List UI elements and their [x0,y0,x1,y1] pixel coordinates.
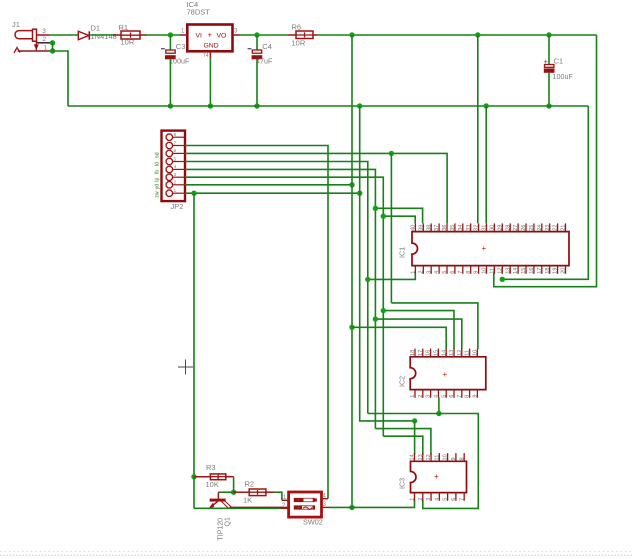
capacitor C3 lead [169,35,171,50]
wire VCC drop x352 [351,35,353,507]
JP2 pin 6 stub [173,152,185,154]
wire VCC row to IC3 pin1 [329,500,415,508]
IC1 bottom pin 6 stub [454,266,456,274]
svg-text:9: 9 [473,395,479,398]
J1 sleeve lead with arrow [35,41,37,50]
junction P3 pin40 [381,214,386,219]
svg-text:yd: yd [155,184,161,190]
IC3 bottom pin 1 stub [414,493,416,501]
svg-text:7: 7 [457,395,463,398]
wire P4 branch to IC2 pin12 [375,319,461,349]
wire VCC top rail [317,34,597,36]
svg-text:zw: zw [155,191,161,198]
capacitor C4 minus sign [248,48,252,50]
IC1 bottom pin 4 stub [438,266,440,274]
svg-text:6: 6 [450,271,456,274]
JP2 pin 7 circle [166,142,172,148]
junction GND IC3 pin14 branch [412,418,417,423]
svg-text:2: 2 [174,180,177,186]
svg-text:18: 18 [410,350,416,356]
svg-text:+: + [297,497,301,504]
SW02 pin2 stub [281,507,289,509]
svg-text:15: 15 [434,350,440,356]
capacitor C1 top plate [545,65,554,68]
wire IC4 GND to rail [209,57,211,106]
svg-text:5: 5 [441,395,447,398]
wire C3 to rail [169,59,171,106]
wire IC3 pin14 drop [414,421,416,455]
resistor R1 lead right [140,34,147,36]
IC1 top pin 30 stub [493,223,495,231]
IC3 top pin 12 stub [430,453,432,461]
wire D1 to R1 [90,34,115,36]
IC4 pin VO stub [233,34,241,36]
IC1 bottom pin 18 stub [549,266,551,274]
wire JP2 pin3 vertical [185,177,383,436]
junction VCC x549 C1 [546,32,551,37]
IC1 top pin 40 stub [414,223,416,231]
svg-text:4: 4 [174,164,177,170]
svg-text:7: 7 [459,498,465,501]
JP2 pin 6 circle [166,150,172,156]
resistor R6 lead left [288,34,296,36]
svg-text:37: 37 [434,225,440,231]
wire JP2 pin2 to VCC drop [185,184,352,186]
IC1 bottom pin 13 stub [509,266,511,274]
JP2 pin 5 circle [166,158,172,164]
IC IC1 body outline [412,232,569,266]
voltage regulator IC4 box [187,25,232,52]
IC1 top pin 33 stub [470,223,472,231]
wire J1 pin1 to GND rail [53,51,69,106]
junction C4 rail [254,103,259,108]
svg-text:13: 13 [418,454,424,460]
IC3 bottom pin 6 stub [455,493,457,501]
IC1 top pin 35 stub [454,223,456,231]
junction GND x486 [484,103,489,108]
svg-text:4: 4 [434,271,440,274]
svg-text:lp: lp [155,178,161,182]
IC1 top pin 29 stub [501,223,503,231]
IC3 top pin 9 stub [455,453,457,461]
transistor Q1 collector darlington lead [222,502,229,509]
wire P5 branch to IC1 pin1 [368,273,416,280]
svg-text:IC2: IC2 [398,376,407,387]
svg-text:1K: 1K [243,496,252,505]
svg-text:R2: R2 [245,480,255,489]
svg-text:23: 23 [545,225,551,231]
capacitor C4 top plate [252,50,261,53]
Q1 collector red overlay to SW02 [230,506,289,508]
svg-text:ld: ld [155,162,161,166]
svg-text:IC3: IC3 [398,478,407,489]
svg-text:6: 6 [451,498,457,501]
junction IC1 pin12 GND [500,277,505,282]
svg-text:2: 2 [418,271,424,274]
svg-text:40: 40 [411,225,417,231]
wire JP2 pin1 to GND drop [185,192,360,194]
svg-text:+: + [482,244,487,253]
svg-text:10: 10 [473,350,479,356]
svg-text:12: 12 [497,268,503,274]
wire JP2 pin1 drop to R3 [193,193,195,477]
svg-text:VO: VO [217,33,227,40]
wire J1 pin2 to pin1 [52,43,54,51]
svg-text:5: 5 [443,498,449,501]
IC1 top pin 31 stub [486,223,488,231]
wire GND to IC1 pin31 [485,106,487,223]
svg-text:74: 74 [203,53,209,59]
svg-text:13: 13 [449,350,455,356]
IC1 top pin 36 stub [446,223,448,231]
IC1 top pin 26 stub [525,223,527,231]
svg-text:8: 8 [465,395,471,398]
svg-text:R1: R1 [119,23,129,32]
svg-text:1: 1 [44,44,48,51]
wire P4 branch to IC3 pin12 [375,429,431,455]
svg-text:+: + [434,472,439,481]
svg-text:39: 39 [418,225,424,231]
svg-text:+: + [297,505,301,512]
wire C4 to rail [256,59,258,106]
JP2 pin 3 circle [166,174,172,180]
wire P6 branch to IC2 pin10 [391,303,478,349]
IC1 top pin 21 stub [565,223,567,231]
svg-text:14: 14 [441,350,447,356]
wire VCC to IC1 pin32 [477,35,479,223]
wire junction to transistor base [218,491,233,493]
wire JP2 pin7 to SW02 pin4 net [185,146,328,499]
svg-text:C3: C3 [176,42,186,51]
wire IC2 pin4 to P5 wire [438,397,440,413]
svg-text:9: 9 [474,271,480,274]
svg-text:3: 3 [426,271,432,274]
junction GND x360 [357,103,362,108]
connector JP2 box [162,131,186,202]
capacitor C4 bottom plate [252,55,263,59]
IC1 bottom pin 2 stub [422,266,424,274]
IC3 bottom pin 3 stub [430,493,432,501]
J1 pin 3 stub [37,34,50,36]
IC2 top pin 10 stub [476,349,478,357]
JP2 pin 4 circle [166,166,172,172]
IC3 bottom pin 2 stub [422,493,424,501]
wire JP2 pin6 net to IC1 pin36 [185,153,447,223]
junction C3 top [168,32,173,37]
junction VCC x478 [475,32,480,37]
JP2 pin 7 stub [173,145,185,147]
svg-text:1N4148: 1N4148 [91,32,117,41]
wire R3 to R2 junction [233,477,235,493]
resistor R2 body [249,489,266,496]
IC2 top pin 15 stub [437,349,439,357]
svg-text:10K: 10K [206,480,219,489]
svg-text:78DST: 78DST [187,8,211,17]
junction P1 x194 [191,191,196,196]
junction VCC SW02 pin3 branch [349,505,354,510]
wire P6 drop x391 [390,153,392,303]
connector J1 barrel [15,31,33,39]
svg-text:19: 19 [553,268,559,274]
svg-text:11: 11 [465,350,471,356]
svg-text:16: 16 [426,350,432,356]
JP2 pin 4 stub [173,168,185,170]
IC IC3 body outline [411,461,467,492]
svg-text:12: 12 [426,454,432,460]
IC4 pin VI stub [180,34,187,36]
svg-text:25: 25 [529,225,535,231]
svg-text:1: 1 [174,188,177,194]
svg-text:11: 11 [434,455,440,461]
svg-text:17: 17 [418,350,424,356]
svg-text:4: 4 [434,498,440,501]
IC1 bottom pin 9 stub [478,266,480,274]
svg-text:2: 2 [418,498,424,501]
IC3 bottom pin 5 stub [447,493,449,501]
switch SW02 box [289,492,322,517]
svg-text:14: 14 [410,454,416,460]
JP2 pin 5 stub [173,161,185,163]
svg-text:10: 10 [482,268,488,274]
IC1 bottom pin 12 stub [501,266,503,274]
IC3 top pin 13 stub [422,453,424,461]
svg-text:38: 38 [426,225,432,231]
svg-text:47uF: 47uF [256,57,273,66]
IC2 top pin 13 stub [453,349,455,357]
svg-text:35: 35 [450,225,456,231]
svg-text:30: 30 [490,225,496,231]
IC IC2 body outline [410,357,486,390]
IC2 bottom pin 3 stub [430,390,432,398]
svg-text:32: 32 [474,225,480,231]
svg-text:21: 21 [561,225,567,231]
IC3 top pin 11 stub [438,453,440,461]
svg-text:10R: 10R [292,39,306,48]
wire R1 to IC4 VI [146,34,181,36]
junction J1 pin1 [50,48,55,53]
J1 pin 1 stub [18,50,53,52]
IC2 bottom pin 9 stub [476,390,478,398]
resistor R3 lead left [194,476,210,478]
svg-text:1: 1 [410,395,416,398]
wire P3 branch to IC2 pin13 [383,311,454,349]
svg-text:100uF: 100uF [169,57,190,66]
wire P4 branch to IC1 pin39 [375,208,422,223]
JP2 pin 8 stub [173,136,185,138]
svg-text:2: 2 [43,36,47,43]
SW02 pin4 stub [322,498,329,500]
svg-text:11: 11 [490,268,496,274]
JP2 pin 2 stub [173,184,185,186]
wire GND drop x360 [360,106,415,421]
IC1 top pin 37 stub [438,223,440,231]
IC1 top pin 22 stub [557,223,559,231]
svg-text:31: 31 [482,225,488,231]
svg-text:27: 27 [513,225,519,231]
IC1 top pin 34 stub [462,223,464,231]
wire JP2 pin4 vertical [185,169,375,428]
svg-text:10: 10 [443,454,449,460]
wire VCC rail right drop [494,35,597,287]
svg-text:7: 7 [174,140,177,146]
svg-text:6: 6 [174,148,177,154]
svg-text:15: 15 [521,268,527,274]
IC2 bottom pin 6 stub [453,390,455,398]
svg-text:VI: VI [196,33,203,40]
IC3 top pin 14 stub [414,453,416,461]
svg-text:8: 8 [174,132,177,138]
svg-text:TIP120: TIP120 [218,518,225,541]
svg-text:C1: C1 [554,57,564,66]
IC2 bottom pin 8 stub [469,390,471,398]
junction C3 rail [168,103,173,108]
capacitor C4 lead [256,35,258,50]
IC2 bottom pin 7 stub [461,390,463,398]
JP2 pin 1 circle [166,190,172,196]
IC1 bottom pin 8 stub [470,266,472,274]
SW02 switch bar 1 [294,498,315,502]
svg-text:IC1: IC1 [398,247,407,258]
capacitor C3 bottom plate [165,55,176,59]
junction C4 top [254,32,259,37]
IC1 bottom pin 11 stub [493,266,495,274]
IC1 bottom pin 17 stub [541,266,543,274]
origin crosshair marker [178,366,193,368]
IC1 top pin 38 stub [430,223,432,231]
IC1 bottom pin 14 stub [517,266,519,274]
svg-text:26: 26 [521,225,527,231]
IC1 top pin 28 stub [509,223,511,231]
junction VCC IC2 pin14 branch [349,325,354,330]
wire JP2 pin5 vertical [185,162,368,414]
svg-text:16: 16 [529,268,535,274]
svg-text:+: + [443,370,448,379]
svg-text:sd: sd [155,152,161,158]
svg-text:7: 7 [458,271,464,274]
svg-text:14: 14 [513,268,519,274]
junction P6 x391 [389,151,394,156]
wire x194 down to emitter row [193,477,195,509]
svg-text:9: 9 [451,457,457,460]
IC1 top pin 32 stub [478,223,480,231]
svg-text:5: 5 [174,156,177,162]
connector J1 bar [33,29,37,41]
capacitor C3 top plate [166,50,175,53]
svg-text:10R: 10R [121,38,135,47]
JP2 pin 1 stub [173,192,185,194]
svg-text:SW02: SW02 [303,518,323,527]
IC1 top pin 23 stub [549,223,551,231]
resistor R3 body [210,474,225,480]
IC2 top pin 17 stub [422,349,424,357]
svg-text:13: 13 [505,268,511,274]
capacitor C3 minus sign [161,48,165,50]
svg-text:GND: GND [204,43,219,50]
wire P3 branch to IC3 pin13 [383,436,423,455]
transistor Q1 base bar [210,499,226,502]
svg-text:100uF: 100uF [553,72,574,81]
IC2 top pin 14 stub [445,349,447,357]
IC1 bottom pin 1 stub [414,266,416,274]
sheet boundary dotted line lower [0,554,633,556]
svg-text:3: 3 [42,28,46,35]
svg-text:8: 8 [466,271,472,274]
wire R2 to SW02 pin1 [274,492,282,500]
resistor R1 lead left [113,34,121,36]
svg-text:JP2: JP2 [171,202,184,211]
IC1 top pin 25 stub [533,223,535,231]
svg-text:5: 5 [442,271,448,274]
SW02 pin3 stub [322,506,330,508]
svg-text:24: 24 [537,225,543,231]
IC1 bottom pin 7 stub [462,266,464,274]
svg-text:20: 20 [561,268,567,274]
wire J1 pin3 to D1 [49,34,78,36]
wire C1 to GND rail [548,73,550,106]
IC2 bottom pin 5 stub [445,390,447,398]
svg-text:Q1: Q1 [225,517,232,526]
svg-text:J1: J1 [12,20,20,29]
capacitor C1 bottom plate [544,68,555,72]
svg-text:3: 3 [426,395,432,398]
junction R2 left [231,490,236,495]
IC1 bottom pin 3 stub [430,266,432,274]
resistor R2 lead right [266,491,274,493]
junction VCC x352 [349,32,354,37]
svg-text:33: 33 [466,225,472,231]
junction P4 pin39 [373,206,378,211]
junction P3 IC2 pin13 [381,308,386,313]
svg-text:2: 2 [418,395,424,398]
wire Q1 emitter row to SW02 pin2 [194,507,282,509]
junction C1 GND rail [546,103,551,108]
IC3 top pin 10 stub [447,453,449,461]
JP2 pin 3 stub [173,176,185,178]
IC3 bottom pin 4 stub [438,493,440,501]
resistor R3 lead right [226,476,234,478]
J1 pin 2 stub [37,42,53,44]
SW02 switch bar 2 [294,505,315,509]
IC1 bottom pin 5 stub [446,266,448,274]
svg-text:C4: C4 [262,42,272,51]
wire P3 branch to IC1 pin40 [383,216,415,223]
svg-text:17: 17 [537,268,543,274]
IC4 GND pin stub [209,51,211,58]
sheet boundary dotted line upper [0,551,633,553]
IC2 bottom pin 2 stub [422,390,424,398]
svg-text:22: 22 [553,225,559,231]
IC2 bottom pin 1 stub [414,390,416,398]
svg-text:6: 6 [449,395,455,398]
J1 switch contact mark [14,48,20,53]
IC2 bottom pin 4 stub [437,390,439,398]
junction IC2 pin4 P5 [436,411,441,416]
svg-text:lb: lb [155,170,161,174]
IC1 top pin 24 stub [541,223,543,231]
svg-text:8: 8 [459,457,465,460]
resistor R6 lead right [313,34,317,36]
resistor R6 body [296,31,313,39]
junction P1 GND [357,191,362,196]
IC1 bottom pin 15 stub [525,266,527,274]
svg-text:1: 1 [411,271,417,274]
transistor Q1 emitter with arrow [212,502,218,507]
IC3 bottom pin 7 stub [463,493,465,501]
IC1 bottom pin 10 stub [486,266,488,274]
junction R3 left [191,474,196,479]
svg-text:+: + [208,31,213,40]
wire GND rail right drop [502,106,588,279]
